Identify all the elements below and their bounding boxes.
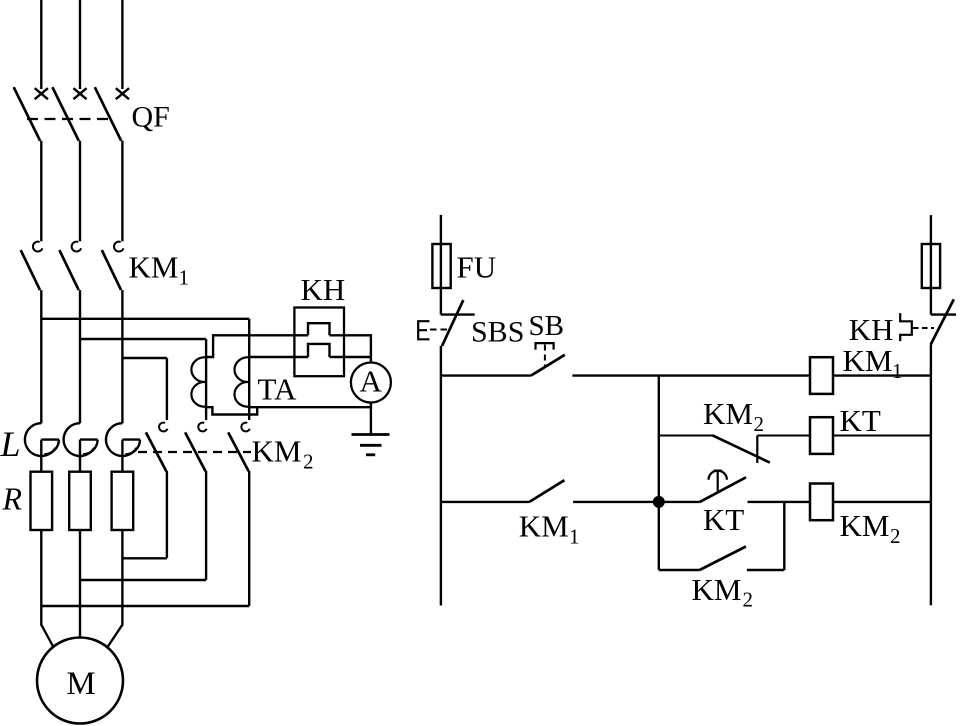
wire: right CT primary vertical (x=249): [248, 319, 250, 420]
wire: left CT secondary top to KH: [206, 335, 308, 357]
svg-text:KM: KM: [840, 508, 890, 543]
contact KM2 NO (self-hold): [700, 547, 746, 571]
ammeter A: [351, 363, 391, 403]
svg-text:1: 1: [892, 359, 903, 383]
wire: left CT primary vertical (x=206): [205, 339, 207, 420]
wire: rung3 left of KM1 contact: [441, 501, 530, 503]
contact KM2 NC (interlock): [712, 435, 770, 463]
current transformer TA left secondary winding: [191, 357, 206, 407]
wire: control left rail lower: [440, 346, 442, 606]
wire: L3 from QF to KM1 contact: [121, 141, 123, 242]
wire: supply line L3 top: [121, 0, 123, 89]
circuit breaker QF pole 2 contact cross: [73, 88, 86, 99]
thermal relay KH actuator paddle: [900, 313, 912, 341]
contactor KM1 main contact pole 3: [102, 242, 124, 290]
wire: heater 1 output to ammeter: [330, 335, 371, 363]
svg-text:L: L: [0, 424, 21, 464]
contact KM1 NO (self-hold): [529, 480, 564, 502]
svg-text:KM: KM: [692, 572, 742, 607]
wire: tap from L1 at y319 to right CT primary: [41, 318, 249, 320]
coil KM2: [810, 484, 833, 521]
wire: tap from L3 at y358 to KM2 contact 1: [122, 357, 166, 359]
wire: L1 from KM1 down to reactor L: [40, 290, 42, 423]
thermal relay KH heater element 2: [308, 344, 330, 357]
wire: common CT return to ammeter: [249, 406, 371, 408]
wire: branch vertical from rung1 to bottom branch: [658, 376, 660, 570]
circuit breaker QF pole 3 blade: [95, 87, 121, 141]
circuit breaker QF pole 1 blade: [14, 87, 40, 141]
stop switch SBS (NC): [441, 300, 475, 346]
svg-text:M: M: [66, 666, 95, 702]
pushbutton SB (NO, start): [531, 343, 564, 375]
wire: L3 from KM1 down to reactor L: [121, 290, 123, 423]
thermal relay KH heater element 1: [308, 323, 330, 335]
resistor R phase 2: [69, 472, 91, 530]
coil KM1: [810, 357, 833, 394]
wire: rung1 KM1 coil to right rail: [833, 374, 931, 376]
contactor KM2 bypass contact pole 1: [146, 423, 168, 472]
svg-text:KT: KT: [703, 502, 744, 537]
svg-text:KH: KH: [849, 312, 894, 347]
wire: tap from L2 at y339 to left CT primary: [80, 338, 206, 340]
svg-text:KM: KM: [703, 396, 753, 431]
wire: KM2 pole2 lower lead down to y580: [205, 471, 207, 580]
svg-text:1: 1: [569, 525, 580, 549]
motor M: [37, 638, 123, 724]
svg-text:R: R: [2, 481, 23, 517]
svg-text:A: A: [360, 364, 383, 399]
wire: rung2 left segment: [659, 435, 712, 437]
svg-text:2: 2: [743, 588, 754, 612]
wire: bypass to L3 at y558: [122, 557, 166, 559]
wire: rung2 to KT coil: [757, 435, 810, 437]
wire: rung3 KM2 coil to right rail: [833, 501, 931, 503]
svg-text:1: 1: [179, 266, 190, 290]
wire: bypass to L2 at y580: [80, 579, 206, 581]
svg-text:KT: KT: [840, 403, 881, 438]
svg-text:KM: KM: [843, 343, 893, 378]
wire: left CT secondary bottom return: [206, 407, 257, 414]
ground: [352, 435, 390, 455]
contact KT delayed close (NO): [700, 471, 746, 503]
wire: bypass to L1 at y606: [41, 605, 249, 607]
svg-text:TA: TA: [258, 372, 297, 407]
wire: vertical x784 joining KM2 self-hold branch: [783, 502, 785, 570]
wire: L1 below R to motor: [41, 530, 53, 647]
wire: L2 below R to motor: [79, 530, 81, 638]
thermal relay KH box: [294, 308, 344, 377]
wire: L2 from QF to KM1 contact: [79, 141, 81, 242]
wire: heater 2 output to ammeter: [330, 356, 371, 358]
svg-text:2: 2: [303, 450, 314, 474]
wire: bottom branch right segment: [747, 569, 784, 571]
wire: L3 below R to motor: [107, 530, 122, 647]
svg-text:SBS: SBS: [471, 316, 524, 349]
wire: ammeter to ground: [370, 403, 372, 435]
wire: supply line L1 top: [40, 0, 42, 89]
svg-text:QF: QF: [132, 100, 170, 133]
wire: rung3 KT contact to KM2 coil: [748, 501, 811, 503]
contactor KM1 main contact pole 1: [21, 242, 43, 290]
svg-text:KH: KH: [301, 272, 346, 307]
svg-text:KM: KM: [129, 250, 179, 285]
wire: right CT secondary top to KH: [249, 356, 308, 358]
contactor KM2 linkage (dashed): [138, 451, 251, 453]
wire: control left rail top: [440, 215, 442, 315]
wire: control right rail lower: [930, 345, 932, 606]
wire: KM2 contact 1 upper lead (x=167): [166, 358, 168, 420]
reactor L phase 1: [25, 423, 59, 472]
reactor L phase 3: [106, 423, 140, 472]
resistor R phase 1: [31, 472, 53, 530]
svg-text:KM: KM: [519, 509, 569, 544]
wire: bottom branch left segment: [659, 569, 700, 571]
svg-text:FU: FU: [457, 250, 497, 285]
reactor L phase 2: [64, 423, 98, 472]
wire: rung2 KT coil to right rail: [833, 435, 931, 437]
emergency head E of SBS: [418, 321, 429, 339]
resistor R phase 3: [112, 472, 134, 530]
svg-text:2: 2: [754, 412, 765, 436]
wire: supply line L2 top: [79, 0, 81, 89]
contactor KM2 bypass contact pole 3: [228, 423, 250, 472]
contactor KM2 bypass contact pole 2: [185, 423, 207, 472]
wire: rung3 KM1 contact to node A: [573, 501, 700, 503]
dashed link E to SBS blade: [430, 329, 449, 331]
circuit breaker QF pole 3 contact cross: [116, 88, 129, 99]
svg-text:SB: SB: [529, 310, 564, 342]
circuit breaker QF pole 2 blade: [52, 87, 78, 141]
circuit breaker QF pole 1 contact cross: [35, 88, 48, 99]
svg-text:2: 2: [890, 524, 901, 548]
wire: L2 from KM1 down to reactor L: [79, 290, 81, 423]
wire: control right rail top: [930, 215, 932, 315]
current transformer TA right secondary winding: [234, 357, 249, 407]
circuit breaker QF linkage (dashed): [27, 118, 113, 120]
node A junction dot: [653, 496, 664, 507]
contactor KM1 main contact pole 2: [59, 242, 81, 290]
wire: KM2 pole1 lower lead down to y558: [166, 471, 168, 558]
dashed link KH paddle to blade: [913, 327, 934, 329]
coil KT: [810, 417, 833, 454]
wire: rung1 left of SB: [441, 374, 532, 376]
fuse FU left: [432, 244, 450, 288]
wire: L1 from QF to KM1 contact: [40, 141, 42, 242]
svg-text:KM: KM: [252, 434, 302, 469]
wire: rung1 SB to KM1 coil: [572, 374, 810, 376]
wire: KM2 pole3 lower lead down to y606: [248, 471, 250, 606]
fuse FU right: [922, 244, 940, 288]
contact KH NC (thermal relay): [931, 299, 956, 344]
